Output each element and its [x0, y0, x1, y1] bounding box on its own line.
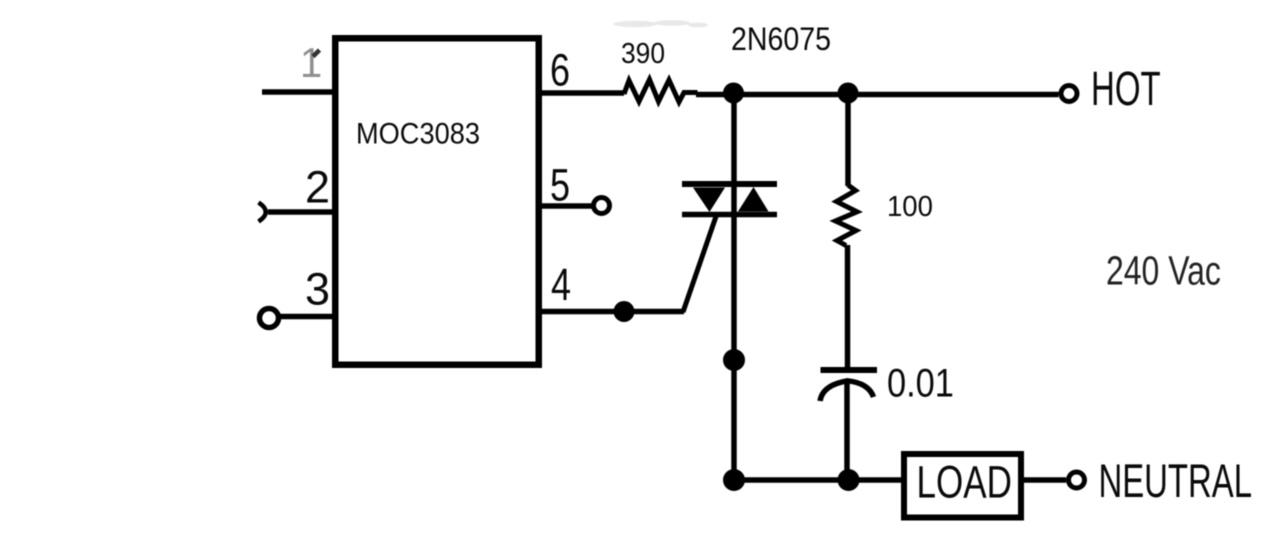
svg-text:6: 6: [550, 45, 570, 96]
svg-text:5: 5: [550, 160, 570, 211]
svg-text:240 Vac: 240 Vac: [1106, 248, 1221, 294]
svg-text:MOC3083: MOC3083: [356, 117, 480, 151]
svg-text:LOAD: LOAD: [917, 456, 1012, 508]
svg-text:0.01: 0.01: [887, 360, 954, 405]
svg-text:3: 3: [305, 264, 330, 315]
svg-text:2N6075: 2N6075: [731, 23, 831, 58]
svg-text:100: 100: [887, 189, 933, 222]
svg-text:4: 4: [551, 259, 571, 310]
svg-text:390: 390: [621, 37, 665, 69]
svg-text:2: 2: [305, 162, 330, 213]
svg-text:1: 1: [300, 39, 322, 86]
svg-text:HOT: HOT: [1091, 61, 1161, 116]
svg-text:NEUTRAL: NEUTRAL: [1099, 454, 1252, 507]
